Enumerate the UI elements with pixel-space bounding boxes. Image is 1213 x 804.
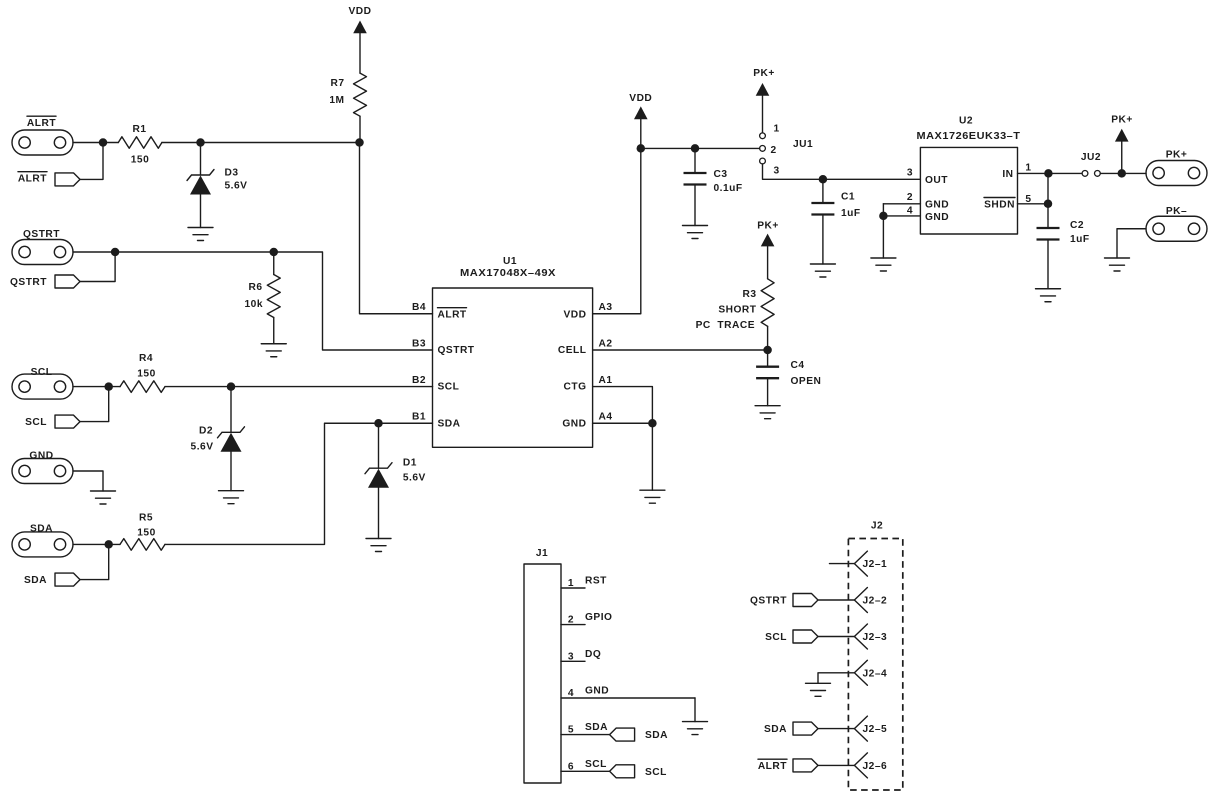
wire D1 to ground xyxy=(378,488,380,539)
pin name GND (J1) xyxy=(585,686,609,697)
wire R1 to R7 node xyxy=(162,142,360,144)
op-amp U1 MAX17048X-49X box xyxy=(433,288,593,447)
svg-text:C3: C3 xyxy=(714,169,728,180)
label SCL tab (J1) xyxy=(645,767,667,778)
svg-text:SDA: SDA xyxy=(764,724,787,735)
label U2 part MAX1726EUK33-T xyxy=(917,131,1021,142)
wire to C3 xyxy=(694,148,696,173)
label SCL pad xyxy=(31,367,53,378)
wire D3 to ground xyxy=(200,195,202,228)
wire ALRT pad to R1 xyxy=(73,142,118,144)
svg-text:SDA: SDA xyxy=(645,730,668,741)
label C3 xyxy=(714,169,728,180)
wire U2 GND to ground xyxy=(882,216,884,258)
connector J2 dashed outline xyxy=(848,539,902,791)
label C4 xyxy=(791,360,805,371)
pin number B4 xyxy=(412,302,426,313)
label U1 xyxy=(503,256,517,267)
wire QSTRT pad to R6 node xyxy=(73,251,274,253)
svg-text:SDA: SDA xyxy=(438,418,461,429)
svg-text:U2: U2 xyxy=(959,116,973,127)
ground D1 xyxy=(366,539,391,552)
label D2 xyxy=(199,426,213,437)
wire J1 ground drop xyxy=(694,698,696,722)
tab QSTRT xyxy=(55,275,80,288)
svg-text:ALRT: ALRT xyxy=(438,310,467,321)
label C1 value 1uF xyxy=(841,208,861,219)
label QSTRT pad xyxy=(23,229,60,240)
svg-text:5.6V: 5.6V xyxy=(191,442,214,453)
pin number B1 xyxy=(412,412,426,423)
label R6 xyxy=(248,282,262,293)
label C1 xyxy=(841,192,855,203)
pin number A2 xyxy=(599,339,613,350)
junction R6 xyxy=(270,248,279,257)
wire GND pad to ground xyxy=(73,471,103,491)
tab SCL xyxy=(55,415,80,428)
label QSTRT tab xyxy=(10,277,47,288)
svg-text:J1: J1 xyxy=(536,548,548,559)
pin number 3 (J1) xyxy=(568,651,574,662)
junction SHDN/C2 xyxy=(1044,200,1053,209)
label JU2 xyxy=(1081,152,1101,163)
pin number 1 (U2) xyxy=(1025,163,1031,174)
label D2 value 5.6V xyxy=(191,442,214,453)
wire to D3 xyxy=(200,143,202,176)
label PK+ net (JU1) xyxy=(753,68,775,79)
label R3 xyxy=(742,289,756,300)
wire SDA tab xyxy=(80,544,109,579)
svg-text:3: 3 xyxy=(568,651,574,662)
wire J2-1 stub xyxy=(830,563,855,565)
svg-text:4: 4 xyxy=(907,206,913,217)
pin number 1 (J1) xyxy=(568,578,574,589)
svg-text:JU2: JU2 xyxy=(1081,152,1101,163)
junction CTG/GND xyxy=(648,419,657,428)
wire C1 to ground xyxy=(822,215,824,265)
connector pin J2-6 xyxy=(854,753,867,778)
svg-text:SDA: SDA xyxy=(30,524,53,535)
pad QSTRT xyxy=(12,240,73,265)
label R1 xyxy=(132,124,146,135)
svg-text:A2: A2 xyxy=(599,339,613,350)
svg-text:PC TRACE: PC TRACE xyxy=(696,320,755,331)
svg-text:OPEN: OPEN xyxy=(791,376,822,387)
junction R7/ALRT xyxy=(355,138,364,147)
svg-text:10k: 10k xyxy=(245,299,264,310)
pin number B3 xyxy=(412,339,426,350)
wire J2-2 stub xyxy=(818,599,854,601)
wire VDD node to jumper JU1 xyxy=(641,147,760,149)
svg-text:150: 150 xyxy=(131,155,150,166)
label R1 value 150 xyxy=(131,155,150,166)
pin number A3 xyxy=(599,302,613,313)
label D3 value 5.6V xyxy=(225,181,248,192)
svg-text:SCL: SCL xyxy=(25,417,47,428)
label JU1 pin 1 xyxy=(774,124,780,135)
wire D2 to ground xyxy=(230,452,232,491)
wire J1 pin 6 to SCL tab xyxy=(561,770,610,772)
label R4 xyxy=(139,353,153,364)
svg-text:MAX1726EUK33–T: MAX1726EUK33–T xyxy=(917,131,1021,142)
label U1 part MAX17048X-49X xyxy=(460,268,556,279)
pin name QSTRT (U1) xyxy=(438,345,475,356)
svg-text:1: 1 xyxy=(568,578,574,589)
label C2 xyxy=(1070,220,1084,231)
pin name SCL (J1) xyxy=(585,759,607,770)
svg-text:R1: R1 xyxy=(132,124,146,135)
svg-text:PK–: PK– xyxy=(1166,206,1187,217)
junction D2 xyxy=(227,382,236,391)
svg-text:A1: A1 xyxy=(599,375,613,386)
tab ALRT xyxy=(55,173,80,186)
pad SCL xyxy=(12,374,73,399)
label J2-6 xyxy=(863,761,888,772)
jumper JU1 post 2 xyxy=(760,146,766,152)
wire to R6 xyxy=(273,252,275,275)
svg-text:ALRT: ALRT xyxy=(758,761,787,772)
svg-text:1: 1 xyxy=(1025,163,1031,174)
svg-text:2: 2 xyxy=(907,192,913,203)
label C4 OPEN xyxy=(791,376,822,387)
wire to D2 xyxy=(230,387,232,433)
svg-text:ALRT: ALRT xyxy=(18,174,47,185)
junction D3 xyxy=(196,138,205,147)
label J2 xyxy=(871,521,883,532)
label D1 value 5.6V xyxy=(403,473,426,484)
svg-text:0.1uF: 0.1uF xyxy=(714,183,743,194)
wire VDD arrow to R7 xyxy=(359,33,361,73)
label J2-3 xyxy=(863,632,888,643)
tab QSTRT (J2) xyxy=(793,594,818,607)
svg-text:PK+: PK+ xyxy=(1111,115,1133,126)
svg-text:GND: GND xyxy=(925,199,949,210)
wire SCL tab xyxy=(80,387,109,422)
svg-text:2: 2 xyxy=(771,145,777,156)
wire to D1 xyxy=(378,423,380,468)
pin name VDD (U1) xyxy=(563,310,586,321)
label SDA tab (J2) xyxy=(764,724,787,735)
pin name GND4 (U2) xyxy=(925,212,949,223)
wire U1 GND pin xyxy=(593,422,653,424)
wire J2-3 stub xyxy=(818,636,854,638)
svg-text:OUT: OUT xyxy=(925,175,948,186)
svg-text:R5: R5 xyxy=(139,513,153,524)
pin number 2 (U2) xyxy=(907,192,913,203)
svg-text:ALRT: ALRT xyxy=(27,118,56,129)
zener diode D3 xyxy=(187,170,214,195)
wire to C2 xyxy=(1047,204,1049,228)
svg-text:VDD: VDD xyxy=(563,310,586,321)
connector pin J2-4 xyxy=(854,660,867,685)
junction U2 GND xyxy=(879,212,888,221)
resistor R7 xyxy=(354,73,367,116)
svg-text:A4: A4 xyxy=(599,412,613,423)
label ALRT tab (J2) xyxy=(758,759,787,772)
svg-text:JU1: JU1 xyxy=(793,139,813,150)
svg-text:GND: GND xyxy=(562,418,586,429)
svg-text:SCL: SCL xyxy=(585,759,607,770)
label D1 xyxy=(403,458,417,469)
pin name GND2 (U2) xyxy=(925,199,949,210)
svg-text:B4: B4 xyxy=(412,302,426,313)
svg-text:J2–6: J2–6 xyxy=(863,761,888,772)
ground D3 xyxy=(188,228,213,241)
svg-text:MAX17048X–49X: MAX17048X–49X xyxy=(460,268,556,279)
pin number 4 (U2) xyxy=(907,206,913,217)
connector J1 box xyxy=(524,564,561,783)
svg-text:SCL: SCL xyxy=(31,367,53,378)
label J2-2 xyxy=(863,596,888,607)
pin number 5 (U2) xyxy=(1025,194,1031,205)
label SCL tab (J2) xyxy=(765,632,787,643)
wire QSTRT tab xyxy=(80,252,115,282)
jumper JU1 post 1 xyxy=(760,133,766,139)
ground C2 xyxy=(1036,289,1061,302)
label PK+ net (JU2) xyxy=(1111,115,1133,126)
pin number 5 (J1) xyxy=(568,725,574,736)
svg-text:R4: R4 xyxy=(139,353,153,364)
label R4 value 150 xyxy=(137,369,156,380)
wire J1 pin 1 stub xyxy=(561,587,585,589)
svg-text:B1: B1 xyxy=(412,412,426,423)
wire U2 GND2 xyxy=(883,203,920,205)
connector pin J2-3 xyxy=(854,624,867,649)
svg-text:CELL: CELL xyxy=(558,345,587,356)
svg-text:DQ: DQ xyxy=(585,649,601,660)
wire PK- pad to ground xyxy=(1117,229,1146,258)
svg-text:PK+: PK+ xyxy=(753,68,775,79)
regulator U2 MAX1726EUK33-T box xyxy=(920,147,1017,234)
wire U1 CTG pin down xyxy=(593,387,653,424)
ground U2 xyxy=(871,258,896,271)
wire to ground xyxy=(651,423,653,490)
wire node to U1 ALRT pin B4 xyxy=(360,143,433,314)
wire VDD arrow stem xyxy=(640,119,642,148)
wire J2-6 stub xyxy=(818,764,854,766)
svg-text:150: 150 xyxy=(137,528,156,539)
ground PK- xyxy=(1105,258,1130,271)
pin number 4 (J1) xyxy=(568,688,574,699)
tab SDA xyxy=(55,573,80,586)
wire U2 IN to JU2 xyxy=(1018,172,1083,174)
svg-text:150: 150 xyxy=(137,369,156,380)
pad PK+ xyxy=(1146,161,1207,186)
wire C4 to ground xyxy=(767,378,769,406)
svg-text:J2–1: J2–1 xyxy=(863,559,888,570)
svg-text:CTG: CTG xyxy=(563,381,586,392)
svg-text:J2–5: J2–5 xyxy=(863,724,888,735)
ground J1 xyxy=(683,722,708,735)
label ALRT tab xyxy=(18,172,47,185)
label PK+ pad xyxy=(1166,150,1188,161)
power arrow VDD (U1) xyxy=(634,106,648,119)
svg-text:5.6V: 5.6V xyxy=(403,473,426,484)
junction D1 xyxy=(374,419,383,428)
wire U1 VDD pin to VDD node xyxy=(593,148,641,313)
svg-text:SHORT: SHORT xyxy=(718,305,756,316)
junction QSTRT/tab xyxy=(111,248,120,257)
svg-text:5.6V: 5.6V xyxy=(225,181,248,192)
jumper JU1 post 3 xyxy=(760,158,766,164)
pad ALRT xyxy=(12,130,73,155)
svg-text:U1: U1 xyxy=(503,256,517,267)
pin name SHDN (U2) xyxy=(984,198,1015,211)
label R7 value 1M xyxy=(329,95,344,106)
svg-text:C1: C1 xyxy=(841,192,855,203)
resistor R3 xyxy=(761,279,774,327)
svg-text:3: 3 xyxy=(774,166,780,177)
svg-text:C2: C2 xyxy=(1070,220,1084,231)
svg-text:VDD: VDD xyxy=(629,93,652,104)
label R3 PC TRACE xyxy=(696,320,755,331)
svg-text:D2: D2 xyxy=(199,426,213,437)
junction PK+ arrow xyxy=(1118,169,1127,178)
wire R4 to U1 pin B2 xyxy=(165,386,433,388)
svg-text:GND: GND xyxy=(925,212,949,223)
svg-text:RST: RST xyxy=(585,576,607,587)
svg-text:SCL: SCL xyxy=(645,767,667,778)
label JU1 pin 3 xyxy=(774,166,780,177)
wire R3 to PK+ arrow xyxy=(767,246,769,278)
label VDD net xyxy=(348,6,371,17)
svg-text:2: 2 xyxy=(568,615,574,626)
pin name CTG (U1) xyxy=(563,381,586,392)
connector pin J2-1 xyxy=(854,551,867,576)
ground GND pad xyxy=(91,491,116,504)
label PK+ net (R3) xyxy=(757,221,779,232)
power arrow PK+ (JU2) xyxy=(1115,129,1129,142)
wire IN node to SHDN node xyxy=(1047,173,1049,203)
ground C1 xyxy=(810,264,835,277)
resistor R5 xyxy=(120,539,165,551)
pin name GND (U1) xyxy=(562,418,586,429)
label J1 xyxy=(536,548,548,559)
resistor R4 xyxy=(120,381,165,393)
pin number 2 (J1) xyxy=(568,615,574,626)
svg-text:QSTRT: QSTRT xyxy=(438,345,475,356)
tab ALRT (J2) xyxy=(793,759,818,772)
ground R6 xyxy=(261,344,286,357)
pin number 6 (J1) xyxy=(568,761,574,772)
label R5 value 150 xyxy=(137,528,156,539)
jumper JU2 post 1 xyxy=(1082,171,1088,177)
label C2 value 1uF xyxy=(1070,234,1090,245)
wire U2 SHDN pin xyxy=(1018,203,1049,205)
capacitor C1 xyxy=(811,203,834,215)
ground U1 xyxy=(640,490,665,503)
ground C4 xyxy=(755,406,780,419)
tab SDA (J2) xyxy=(793,722,818,735)
junction SDA/tab xyxy=(104,540,113,549)
svg-text:SDA: SDA xyxy=(24,575,47,586)
label VDD net (U1) xyxy=(629,93,652,104)
svg-text:R7: R7 xyxy=(330,78,344,89)
svg-text:R6: R6 xyxy=(248,282,262,293)
label PK- pad xyxy=(1166,206,1187,217)
svg-text:B3: B3 xyxy=(412,339,426,350)
svg-text:B2: B2 xyxy=(412,375,426,386)
svg-text:R3: R3 xyxy=(742,289,756,300)
connector pin J2-2 xyxy=(854,588,867,613)
wire R3 to node xyxy=(767,326,769,350)
tab SCL (J1) xyxy=(610,765,635,778)
label J2-1 xyxy=(863,559,888,570)
svg-text:1uF: 1uF xyxy=(1070,234,1090,245)
resistor R1 xyxy=(118,137,162,149)
label QSTRT tab (J2) xyxy=(750,596,787,607)
tab SCL (J2) xyxy=(793,630,818,643)
svg-text:J2–4: J2–4 xyxy=(863,668,888,679)
capacitor C3 xyxy=(684,173,707,185)
junction VDD node xyxy=(637,144,646,153)
wire J1 pin 5 to SDA tab xyxy=(561,734,610,736)
wire J1 pin 2 stub xyxy=(561,624,585,626)
ground D2 xyxy=(219,491,244,504)
svg-text:QSTRT: QSTRT xyxy=(10,277,47,288)
connector pin J2-5 xyxy=(854,716,867,741)
pad SDA xyxy=(12,532,73,557)
pin name SCL (U1) xyxy=(438,381,460,392)
label R5 xyxy=(139,513,153,524)
wire JU2 to PK+ pad xyxy=(1100,172,1146,174)
wire J1 pin 4 to ground xyxy=(561,697,695,699)
pin number A4 xyxy=(599,412,613,423)
junction SCL/tab xyxy=(104,382,113,391)
label JU1 xyxy=(793,139,813,150)
capacitor C4 xyxy=(756,367,779,379)
svg-text:VDD: VDD xyxy=(348,6,371,17)
wire SCL pad to R4 xyxy=(73,386,120,388)
pin name DQ (J1) xyxy=(585,649,601,660)
wire ALRT tab xyxy=(80,143,103,180)
svg-text:GND: GND xyxy=(29,451,53,462)
ground J2-4 xyxy=(806,683,831,696)
label J2-5 xyxy=(863,724,888,735)
pin name CELL (U1) xyxy=(558,345,587,356)
power arrow VDD xyxy=(353,21,367,34)
svg-text:QSTRT: QSTRT xyxy=(750,596,787,607)
wire JU1-3 to U2 OUT xyxy=(763,164,921,179)
wire U1 CELL pin to node xyxy=(593,349,768,351)
junction C1 xyxy=(819,175,828,184)
label GND pad xyxy=(29,451,53,462)
wire PK+ arrow to JU1-1 xyxy=(762,96,764,133)
label SDA tab xyxy=(24,575,47,586)
wire R6 to ground xyxy=(273,318,275,344)
svg-text:D3: D3 xyxy=(225,168,239,179)
pin number A1 xyxy=(599,375,613,386)
zener diode D1 xyxy=(365,463,392,488)
svg-text:1: 1 xyxy=(774,124,780,135)
svg-text:PK+: PK+ xyxy=(757,221,779,232)
wire PK+ arrow stem xyxy=(1121,142,1123,174)
wire QSTRT to U1 pin B3 xyxy=(274,252,433,350)
jumper JU2 post 2 xyxy=(1095,171,1101,177)
wire J1 pin 3 stub xyxy=(561,660,585,662)
svg-text:1uF: 1uF xyxy=(841,208,861,219)
label C3 value 0.1uF xyxy=(714,183,743,194)
svg-text:3: 3 xyxy=(907,168,913,179)
svg-text:J2–3: J2–3 xyxy=(863,632,888,643)
label SDA tab (J1) xyxy=(645,730,668,741)
svg-text:GPIO: GPIO xyxy=(585,612,612,623)
junction ALRT/tab xyxy=(99,138,108,147)
label J2-4 xyxy=(863,668,888,679)
wire J2-4 to ground xyxy=(818,673,854,684)
svg-text:C4: C4 xyxy=(791,360,805,371)
wire R5 to U1 pin B1 xyxy=(165,423,433,544)
